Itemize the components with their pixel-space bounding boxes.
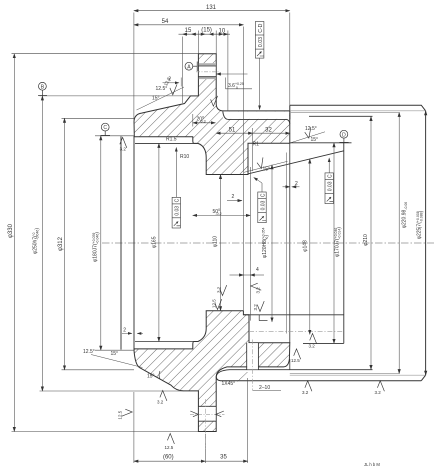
surface finish checks <box>117 76 384 450</box>
svg-text:15°: 15° <box>311 137 319 143</box>
svg-text:15: 15 <box>185 28 192 34</box>
svg-text:3.2: 3.2 <box>375 390 382 395</box>
dimension phi148 <box>309 159 311 334</box>
leader 2-10 <box>253 389 281 391</box>
svg-text:12.5°: 12.5° <box>83 349 95 355</box>
svg-text:2–10: 2–10 <box>259 385 270 391</box>
svg-text:C: C <box>103 125 107 131</box>
check 3.2 on C ext line (tip up) <box>120 137 127 148</box>
svg-text:51: 51 <box>229 128 236 134</box>
dimension 51 <box>216 132 252 134</box>
svg-text:12.5: 12.5 <box>291 358 300 363</box>
dimension 15 / (15) / 10 <box>179 33 231 35</box>
svg-text:(60): (60) <box>163 455 174 461</box>
dimension phi120H8 <box>271 165 273 322</box>
checks 3.2 under barrel bottom face <box>305 381 312 391</box>
svg-text:12.5°: 12.5° <box>305 126 317 132</box>
dimension phi170J7 <box>333 143 335 344</box>
ext x=243.5 (54 dim) <box>243 27 245 311</box>
phi312 ext <box>62 117 135 119</box>
keyway hidden line <box>249 331 344 333</box>
datum C <box>101 123 111 135</box>
check on flange face near rim (tip down) <box>211 96 218 106</box>
svg-text:54: 54 <box>162 19 169 25</box>
bottom horizontal dimensions <box>134 399 248 461</box>
taper leader top-left <box>137 87 185 110</box>
dimension 2 at bore step <box>227 200 242 202</box>
dimension 20-0.3 <box>193 122 216 124</box>
svg-text:15°: 15° <box>111 351 119 357</box>
inner vertical dimensions <box>159 143 334 344</box>
frame 0.03 C at phi148 <box>325 158 334 204</box>
dimension phi312 <box>64 118 66 369</box>
svg-text:0.03: 0.03 <box>175 206 181 216</box>
tapered bore line top <box>248 151 343 174</box>
small tick on bottom slant <box>158 371 161 379</box>
taper leader mid-right lower <box>244 161 288 172</box>
check 12.5 at flange left face bottom (tip right) <box>122 409 132 416</box>
hub section: top half hatched area <box>134 54 290 175</box>
extension lines thin <box>12 13 290 464</box>
svg-text:D: D <box>342 132 346 138</box>
dimension 50-0.2 <box>193 214 251 216</box>
right vertical dimensions <box>371 111 426 375</box>
ext flange left face to bottom dims <box>133 392 135 463</box>
svg-text:2: 2 <box>295 181 298 187</box>
svg-text:φ330: φ330 <box>8 223 14 238</box>
svg-text:4: 4 <box>256 267 259 273</box>
dimension phi210 <box>370 117 372 370</box>
svg-text:φ110: φ110 <box>213 236 219 247</box>
svg-text:φ148: φ148 <box>302 240 308 252</box>
check 12.5 inside bore (tip down) <box>215 299 222 309</box>
phi250 ext top/bottom <box>40 95 199 97</box>
dimension phi220.98 <box>398 112 400 373</box>
dimension phi250h7 <box>41 96 43 391</box>
ext x=205.3 bottom ((60)/35) <box>204 434 206 463</box>
svg-text:15°: 15° <box>147 374 155 380</box>
taper leader mid-right upper <box>288 132 325 144</box>
check 3.2 at phi148 bottom (tip up) <box>310 334 317 344</box>
svg-text:JL h b M: JL h b M <box>364 462 380 467</box>
barrel grey diameter lines <box>290 111 426 375</box>
svg-text:12.5: 12.5 <box>165 445 174 450</box>
dimension phi180J7 <box>100 136 102 350</box>
svg-text:R1.5: R1.5 <box>166 137 177 143</box>
svg-text:3.2: 3.2 <box>253 304 258 311</box>
dimension 2 bottom-left <box>122 332 132 334</box>
svg-text:φ180J7(+0.059-0.046): φ180J7(+0.059-0.046) <box>92 232 101 262</box>
check 12.5 under rim bottom (tip up) <box>167 434 174 444</box>
check 3.2 inside bore (tip down) <box>220 285 227 295</box>
svg-text:3.2: 3.2 <box>256 287 261 294</box>
small step 320.6 <box>258 315 260 321</box>
svg-text:φ170J7(+0.046-0.014): φ170J7(+0.046-0.014) <box>334 227 343 257</box>
taper leader bottom-left <box>91 355 143 368</box>
bolt hole axis <box>204 399 206 449</box>
dimension phi110 <box>220 175 222 311</box>
ext x=247.7 (4 dim / 35 dim) <box>247 378 249 463</box>
dimension 2 (step near spline end) <box>283 186 290 188</box>
svg-text:φ312: φ312 <box>58 236 64 251</box>
dimension 4 (groove width) <box>230 274 244 276</box>
phi330 ext top / bottom <box>12 53 199 55</box>
centre line <box>102 242 434 244</box>
svg-text:15°: 15° <box>263 167 271 173</box>
tolerance boxes <box>172 22 334 229</box>
ext spline end face top <box>289 13 291 106</box>
dimension (60) <box>134 460 205 462</box>
svg-text:2: 2 <box>123 328 126 334</box>
dimension texts horizontal <box>123 5 298 461</box>
hub section: bottom half hatched area <box>134 311 290 432</box>
checks at bolt hole bottom <box>190 411 198 417</box>
svg-text:φ250h7( 0-0.046): φ250h7( 0-0.046) <box>32 228 41 254</box>
bore phi165 surface bottom <box>135 341 198 343</box>
phi180J7 / C ext <box>95 135 134 137</box>
svg-text:(15): (15) <box>201 28 212 34</box>
bore right portion lines <box>243 143 351 344</box>
dimension phi225j7 <box>425 111 427 375</box>
dimension phi330 <box>13 54 15 432</box>
svg-text:12.5: 12.5 <box>211 299 216 308</box>
svg-text:C: C <box>175 198 181 202</box>
bore end wall <box>343 143 345 344</box>
dimension 131 <box>134 10 290 12</box>
rim bolt hole bottom (white band) <box>190 406 225 421</box>
svg-text:C: C <box>328 174 334 178</box>
check at right taper upper (tip down-left) <box>304 127 313 138</box>
phi170 bore surface bottom <box>303 342 344 344</box>
svg-text:φ210: φ210 <box>363 234 369 246</box>
svg-text:3.2: 3.2 <box>216 286 221 293</box>
barrel right portion outline (unsectioned) <box>290 105 426 381</box>
svg-text:3.2: 3.2 <box>302 390 309 395</box>
datum A <box>185 62 197 72</box>
left face lines of flange <box>121 136 134 350</box>
datum D <box>339 130 348 142</box>
ext x=252.6 (51/32/4 dims) <box>252 128 254 171</box>
check 3.2 below flange bottom slant (tip up) <box>160 391 167 401</box>
check 3.2 at groove ext (tip left) <box>251 283 261 290</box>
svg-text:32: 32 <box>265 128 272 134</box>
svg-text:C-D: C-D <box>258 23 264 32</box>
bore phi165 surface top <box>135 142 198 144</box>
spline teeth zone white band (unsectioned) <box>223 111 290 123</box>
svg-text:3.2: 3.2 <box>309 344 316 349</box>
svg-text:R10: R10 <box>180 154 189 160</box>
dimension phi165 <box>158 143 160 341</box>
svg-text:0.03: 0.03 <box>328 181 334 191</box>
radial bolt hole sectioned in lower web (2-10) <box>247 340 259 391</box>
svg-text:15°: 15° <box>152 95 160 101</box>
frame 0.03 C at phi110 <box>254 178 267 223</box>
angle labels <box>83 86 318 380</box>
check 3.2 at keyway step (tip down) <box>257 301 264 311</box>
check at right taper lower <box>256 157 265 169</box>
check 12.5 right of band (tip up) <box>294 349 301 359</box>
svg-text:3.2: 3.2 <box>120 147 127 152</box>
ext 20-0.3 left tick <box>192 114 194 127</box>
rotated diameter labels <box>8 137 425 262</box>
dimension 32 <box>253 132 290 134</box>
svg-text:12.5°: 12.5° <box>156 86 168 92</box>
svg-text:3.2: 3.2 <box>157 400 164 405</box>
svg-text:φ165: φ165 <box>151 236 157 248</box>
svg-text:0.03: 0.03 <box>260 200 266 210</box>
ext flange left face to top dims <box>133 13 135 122</box>
svg-text:0.03: 0.03 <box>258 37 264 47</box>
spline shoulder face seen through bore <box>289 143 291 342</box>
rim bolt hole top (white band with grey edges) <box>196 63 219 79</box>
svg-text:1X45°: 1X45° <box>222 381 236 387</box>
svg-text:2: 2 <box>232 194 235 200</box>
dimension 2 top-left <box>163 82 180 84</box>
check 12.5 on top-left slant (tip down) <box>170 84 177 94</box>
top horizontal dimension chain <box>134 11 300 275</box>
left vertical dimensions <box>14 54 101 432</box>
svg-text:12.5: 12.5 <box>117 410 122 419</box>
phi170J7 bore surface top <box>290 142 352 144</box>
svg-text:35: 35 <box>220 455 227 461</box>
svg-text:φ220.98-0.06: φ220.98-0.06 <box>402 202 409 229</box>
small leaders <box>91 78 325 391</box>
frame 0.03 C at phi165 <box>172 148 181 229</box>
dimension 54 <box>134 24 244 26</box>
svg-text:131: 131 <box>206 5 217 11</box>
svg-text:φ225j7(+0.008-0.088): φ225j7(+0.008-0.088) <box>416 210 425 239</box>
bore step line y=314.8 <box>243 314 343 316</box>
leader 1x45 <box>238 372 248 382</box>
svg-text:10: 10 <box>219 29 226 35</box>
svg-text:C: C <box>260 193 266 197</box>
spline teeth zone white band bottom (unsectioned) <box>216 370 421 381</box>
leader 3.6 groove <box>216 73 247 75</box>
frame 0.03 C-D top <box>255 22 264 110</box>
svg-text:R1: R1 <box>253 142 260 148</box>
datum B <box>38 82 47 95</box>
dimension 35 <box>205 460 247 462</box>
